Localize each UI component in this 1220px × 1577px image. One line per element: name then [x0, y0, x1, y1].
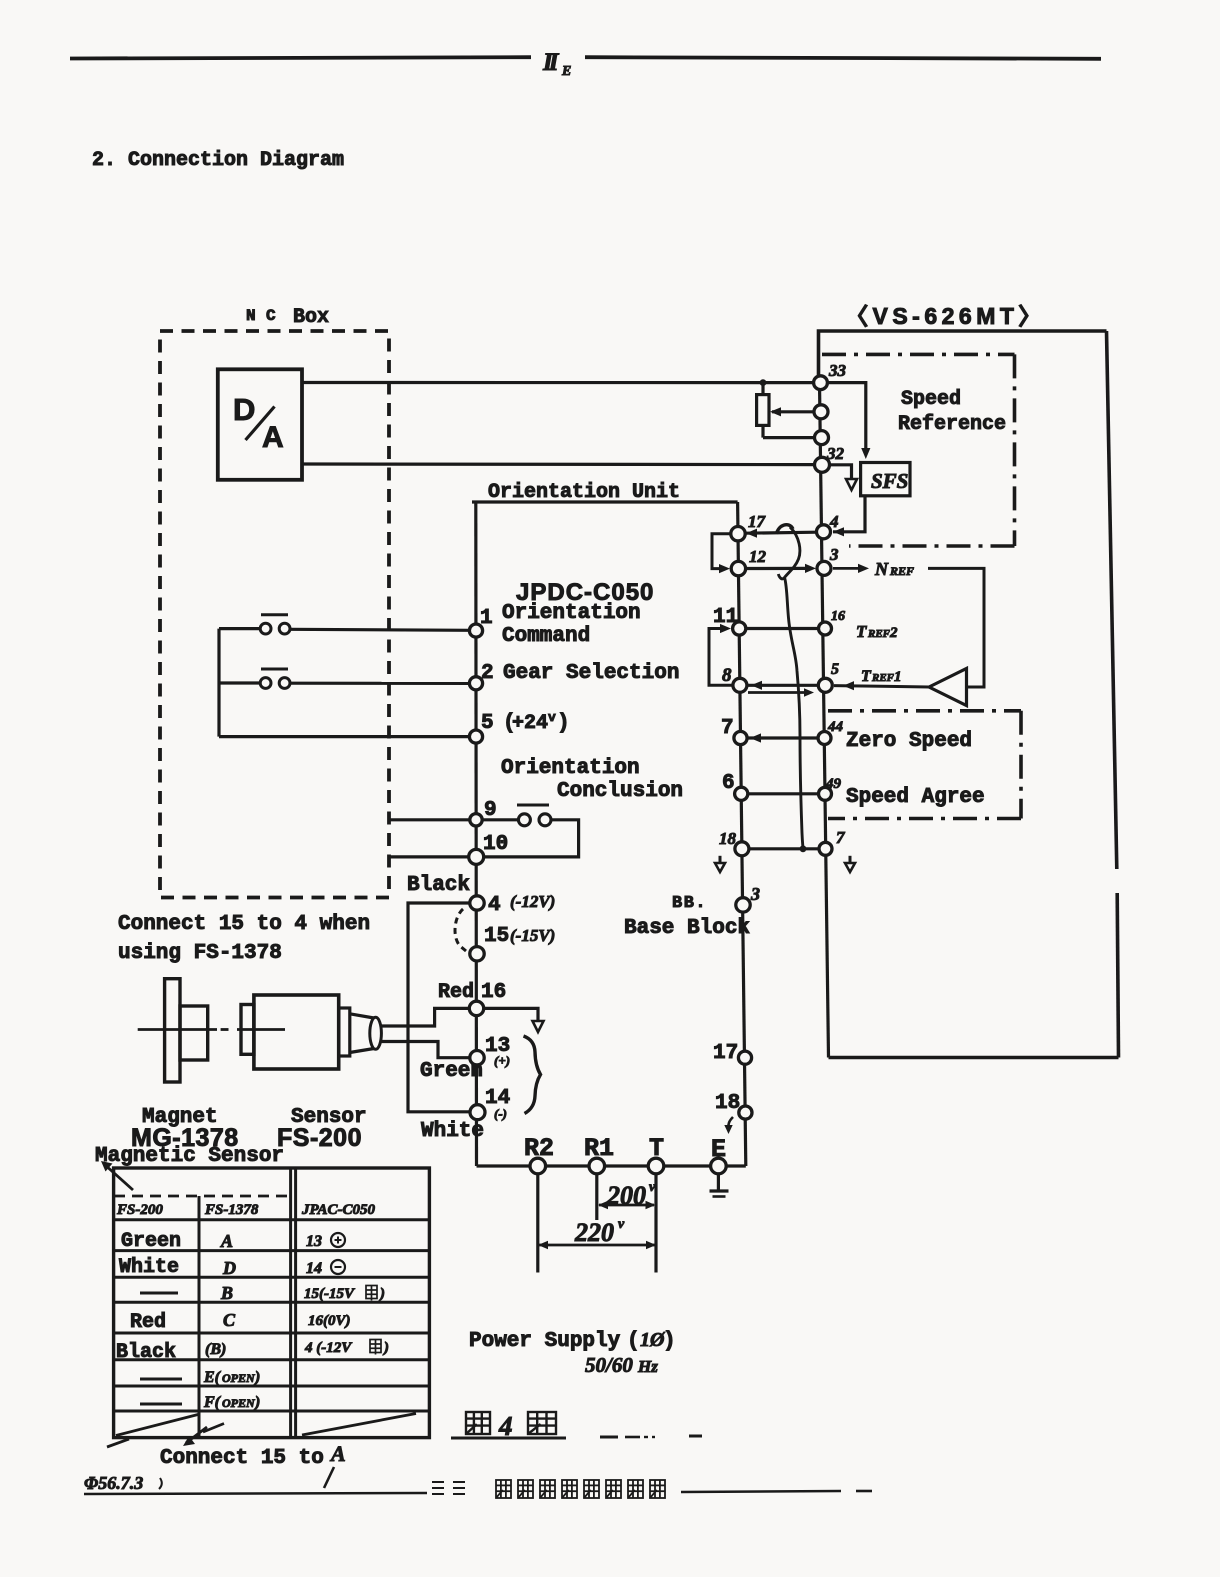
magnet hub: [180, 1006, 208, 1060]
svg-text:17: 17: [748, 512, 767, 531]
terminal 2: [469, 677, 482, 690]
wire 8 to 5 row: [748, 684, 818, 687]
terminal 17 (bottom): [738, 1051, 751, 1064]
svg-text:9: 9: [484, 799, 497, 822]
svg-text:18: 18: [719, 829, 737, 848]
svg-text:A: A: [329, 1441, 346, 1466]
svg-text:(+): (+): [494, 1053, 510, 1068]
wire left bus of contacts: [217, 629, 220, 737]
wire SFS output to terminal 4: [833, 496, 865, 532]
terminal 16: [469, 1001, 483, 1015]
D/A converter box U1: [218, 369, 302, 480]
svg-text:32: 32: [826, 444, 845, 463]
svg-text:): ): [378, 1286, 385, 1302]
R2 drop wire: [536, 1173, 539, 1273]
SFS soft-start block: [861, 463, 910, 496]
wire terminal 9 to contact: [482, 818, 518, 821]
svg-text:15: 15: [484, 925, 509, 948]
wire from NC box to terminal 9: [390, 818, 470, 821]
terminal 16 (right): [819, 622, 832, 635]
terminal 13: [470, 1051, 484, 1065]
terminal tap lower: [815, 431, 829, 445]
leader arrow to table: [104, 1164, 133, 1190]
svg-text:): ): [557, 712, 570, 735]
svg-text:Speed Agree: Speed Agree: [846, 786, 985, 809]
terminal 12: [731, 561, 745, 575]
svg-text:2: 2: [889, 625, 898, 641]
svg-text:(B): (B): [205, 1341, 226, 1358]
terminal 49: [819, 787, 832, 800]
svg-text:Command: Command: [502, 625, 590, 648]
svg-text:Zero Speed: Zero Speed: [846, 730, 972, 753]
svg-text:REF: REF: [871, 672, 895, 684]
svg-text:7: 7: [721, 717, 734, 740]
contact K1 (orientation command): [261, 613, 288, 616]
ground arrow below 18: [719, 856, 722, 864]
figure stamp underline: [451, 1437, 566, 1440]
svg-text:N: N: [246, 307, 256, 325]
terminal 3 (right): [817, 561, 831, 575]
NC Box dashed enclosure: [160, 331, 389, 898]
row B: [140, 1292, 178, 1295]
svg-text:Gear Selection: Gear Selection: [503, 662, 679, 685]
R1 drop wire: [595, 1173, 598, 1220]
wire contact loop right and back to terminal 10: [484, 820, 579, 857]
table double divider: [289, 1168, 292, 1438]
svg-text:): ): [382, 1340, 389, 1356]
wire sensor lead upper to terminal 16: [380, 1008, 470, 1026]
svg-text:200: 200: [606, 1181, 646, 1210]
terminal 11: [733, 622, 746, 635]
wire resistor bottom to terminal tap: [763, 436, 815, 439]
svg-text:33: 33: [828, 361, 847, 380]
svg-text:〈VS-626MT〉: 〈VS-626MT〉: [845, 303, 1046, 329]
svg-text:5: 5: [831, 661, 839, 678]
svg-text:REF: REF: [889, 564, 914, 578]
table dashed header line: [114, 1195, 288, 1198]
connection table frame: [114, 1168, 430, 1438]
svg-text:4: 4: [488, 894, 501, 917]
hand-drawn cable curve: [777, 525, 794, 534]
wire terminal 33 to SFS input: [827, 383, 866, 449]
svg-text:Connect 15 to: Connect 15 to: [160, 1447, 324, 1470]
svg-text:17: 17: [713, 1042, 738, 1065]
svg-text:14: 14: [306, 1260, 322, 1277]
svg-text:5: 5: [481, 712, 494, 735]
Zero Speed / Speed Agree dash-dot box: [828, 709, 1021, 713]
top rule right segment: [585, 57, 1101, 59]
contact K9 (orientation conclusion): [517, 804, 549, 807]
wire 7 to 44 row: [747, 736, 818, 739]
svg-text:12: 12: [749, 547, 767, 566]
svg-text:Reference: Reference: [898, 413, 1006, 436]
svg-text:Box: Box: [293, 306, 329, 329]
svg-text:(: (: [627, 1330, 640, 1353]
svg-text:v: v: [548, 710, 556, 725]
Orientation Unit left edge / terminal column: [474, 502, 478, 1166]
terminal 15: [470, 947, 484, 961]
NREF output arrow: [833, 567, 862, 570]
svg-text:Orientation: Orientation: [502, 602, 641, 625]
stamp row underline: [681, 1491, 841, 1492]
wire contact K2 left: [219, 681, 260, 684]
svg-text:E: E: [561, 64, 571, 79]
sensor body: [254, 995, 339, 1069]
ground at E: [717, 1173, 720, 1191]
svg-text:FS-1378: FS-1378: [204, 1202, 259, 1218]
table row lines: [114, 1218, 430, 1221]
svg-text:Base Block: Base Block: [624, 917, 750, 940]
terminal E: [711, 1158, 727, 1174]
terminal tap upper: [814, 405, 828, 419]
svg-text:Power Supply: Power Supply: [469, 1330, 621, 1353]
svg-text:+24: +24: [512, 712, 548, 735]
terminal 9: [470, 814, 482, 826]
small stamp pair: [432, 1482, 444, 1494]
resistor (speed pot): [757, 395, 769, 426]
svg-text:Black: Black: [116, 1341, 176, 1364]
bracket wire 17 to 12: [712, 534, 731, 569]
wire 11 to 16 row: [746, 627, 818, 630]
svg-text:B: B: [220, 1283, 233, 1303]
wire D/A output top to terminal 33: [302, 381, 814, 384]
terminal 32: [815, 457, 830, 472]
leader from table: [186, 1427, 207, 1443]
Speed Reference dash-dot enclosure: [822, 353, 1015, 357]
svg-text:A: A: [262, 421, 284, 454]
inner return line with arrow: [748, 691, 808, 694]
svg-text:): ): [663, 1330, 676, 1353]
svg-text:6: 6: [722, 772, 735, 795]
terminal R1: [589, 1158, 605, 1174]
table bottom diagonal slashes: [116, 1415, 198, 1436]
svg-text:Speed: Speed: [901, 388, 961, 411]
svg-text:(-15V): (-15V): [510, 926, 555, 945]
magnet MG-1378 flange: [165, 979, 180, 1082]
svg-text:D: D: [222, 1258, 236, 1278]
top rule left segment: [70, 57, 531, 58]
svg-text:Black: Black: [407, 874, 470, 897]
svg-text:Hz: Hz: [637, 1357, 658, 1376]
terminal 6: [735, 787, 748, 800]
bus wire to power terminals: [477, 1164, 746, 1167]
sensor ring: [339, 1008, 350, 1056]
ground arrow below 7: [849, 856, 852, 864]
wire sensor lead lower to terminal 13: [380, 1042, 470, 1058]
svg-text:2. Connection Diagram: 2. Connection Diagram: [92, 149, 344, 172]
wire 17 to 4 row: [746, 532, 817, 533]
svg-text:White: White: [119, 1256, 179, 1279]
terminal 4: [470, 896, 484, 910]
svg-text:SFS: SFS: [871, 469, 908, 493]
svg-text:): ): [253, 1369, 260, 1386]
row E open: [140, 1378, 182, 1381]
terminal 7 (right): [819, 842, 832, 855]
brace for sensor polarity: [524, 1036, 541, 1114]
svg-text:220: 220: [574, 1218, 614, 1247]
svg-text:Connect 15 to 4 when: Connect 15 to 4 when: [118, 913, 370, 936]
ground hook below 18: [728, 1117, 733, 1128]
wire terminal 16 right with arrow: [483, 1008, 538, 1021]
terminal 4 (right): [817, 525, 831, 539]
wire contact K1 left: [219, 627, 260, 630]
date underline: [84, 1493, 427, 1494]
terminal 3 (base block): [736, 898, 750, 912]
terminal 8: [733, 678, 747, 692]
table column divider: [198, 1196, 201, 1438]
svg-text:REF: REF: [867, 628, 891, 640]
wire terminal 4 down-left to terminal 14: [408, 903, 470, 1112]
svg-text:OPEN: OPEN: [222, 1396, 256, 1410]
svg-text:4 (-12V: 4 (-12V: [304, 1340, 353, 1356]
svg-text:T: T: [861, 668, 872, 685]
wire terminal 32 stub with arrow: [830, 465, 852, 479]
svg-text:10: 10: [483, 833, 508, 856]
sensor FS-200 rear cap: [241, 1005, 254, 1055]
svg-text:1: 1: [894, 669, 902, 685]
row F open: [140, 1403, 182, 1406]
approval stamps row: [496, 1480, 511, 1498]
wire 12 to 3 row: [746, 567, 810, 570]
wire 6 to 49 row: [747, 792, 818, 795]
svg-text:15(-15V: 15(-15V: [304, 1286, 356, 1302]
terminal T: [648, 1158, 664, 1174]
svg-text:C: C: [223, 1310, 236, 1330]
svg-text:v: v: [618, 1217, 625, 1232]
wire tap arrow into resistor: [772, 410, 814, 413]
sensor centerline: [237, 1028, 285, 1031]
magnet centerline: [138, 1028, 217, 1031]
svg-text:3: 3: [829, 545, 839, 564]
svg-text:D: D: [233, 392, 255, 427]
terminal 14: [470, 1105, 485, 1120]
wire D/A output bottom to terminal 32: [302, 462, 815, 466]
terminal 5 (right): [818, 678, 832, 692]
svg-text:A: A: [220, 1231, 233, 1251]
svg-text:): ): [253, 1394, 260, 1411]
sensor nozzle: [350, 1014, 374, 1018]
svg-text:Conclusion: Conclusion: [557, 780, 683, 803]
terminal R2: [530, 1158, 546, 1174]
terminal 5: [469, 730, 482, 743]
svg-text:Red: Red: [438, 981, 474, 1004]
terminal 18 (bottom): [739, 1106, 752, 1119]
wire contact K1 to terminal 1: [290, 629, 470, 630]
svg-text:(-12V): (-12V): [510, 892, 555, 911]
svg-text:v: v: [649, 1180, 656, 1195]
svg-text:OPEN: OPEN: [222, 1371, 256, 1385]
svg-text:8: 8: [722, 665, 732, 686]
Orientation Unit top edge: [472, 500, 738, 503]
terminal 1: [469, 624, 482, 637]
svg-text:Φ56.7.3: Φ56.7.3: [84, 1473, 143, 1493]
svg-text:3: 3: [750, 884, 760, 904]
junction on top wire at resistor tap: [760, 379, 767, 386]
svg-text:C: C: [266, 307, 276, 325]
figure number stamp (dai 4 zu): [466, 1412, 490, 1434]
svg-text:16: 16: [831, 609, 845, 624]
wire from NC box to terminal 10: [390, 855, 469, 858]
svg-text:50/60: 50/60: [585, 1353, 633, 1377]
T drop wire: [654, 1173, 657, 1273]
terminal 10: [469, 849, 484, 864]
terminal 44: [818, 732, 831, 745]
svg-text:FS-200: FS-200: [116, 1202, 163, 1218]
dashed link 4 to 15: [455, 909, 466, 951]
Orientation Unit right edge / mid terminal column: [738, 502, 746, 1166]
wire bottom to terminal 5: [219, 735, 470, 738]
svg-text:White: White: [421, 1120, 484, 1143]
svg-text:16: 16: [481, 981, 506, 1004]
terminal 18 (mid): [735, 842, 749, 856]
svg-text:E(: E(: [203, 1369, 222, 1386]
wire amp to terminal 5: [834, 686, 929, 687]
svg-text:JPAC-C050: JPAC-C050: [301, 1202, 376, 1218]
terminal 33: [814, 376, 828, 390]
220V dimension: [539, 1244, 655, 1247]
terminal 17 (mid): [731, 527, 745, 541]
bracket wire 11 to 8: [709, 629, 734, 686]
svg-text:(-): (-): [494, 1106, 507, 1121]
svg-text:BB.: BB.: [672, 894, 707, 913]
contact K2 (gear selection): [261, 668, 288, 671]
svg-text:Red: Red: [130, 1311, 166, 1334]
svg-text:N: N: [874, 559, 889, 579]
terminal 7 (mid): [734, 731, 747, 744]
svg-text:18: 18: [715, 1092, 740, 1115]
amplifier buffer U2: [929, 669, 967, 706]
svg-text:Green: Green: [121, 1230, 181, 1253]
VS-626MT drive enclosure: [819, 331, 1107, 383]
svg-text:7: 7: [836, 828, 846, 847]
200V dimension: [599, 1204, 654, 1207]
svg-text:Magnetic Sensor: Magnetic Sensor: [95, 1145, 284, 1168]
svg-text:16(0V): 16(0V): [308, 1313, 351, 1329]
NREF feedback wire: [928, 568, 984, 687]
svg-text:F(: F(: [203, 1394, 222, 1411]
svg-text:T: T: [856, 622, 867, 641]
svg-text:FS-200: FS-200: [277, 1124, 362, 1152]
svg-text:II: II: [542, 49, 560, 76]
wire contact K2 to terminal 2: [290, 682, 470, 685]
svg-text:using FS-1378: using FS-1378: [118, 942, 282, 965]
svg-text:Orientation: Orientation: [501, 757, 640, 780]
svg-text:13: 13: [306, 1233, 322, 1250]
left edge of drive (terminal column): [820, 383, 829, 1058]
wire 18 to 7 row: [748, 847, 818, 850]
